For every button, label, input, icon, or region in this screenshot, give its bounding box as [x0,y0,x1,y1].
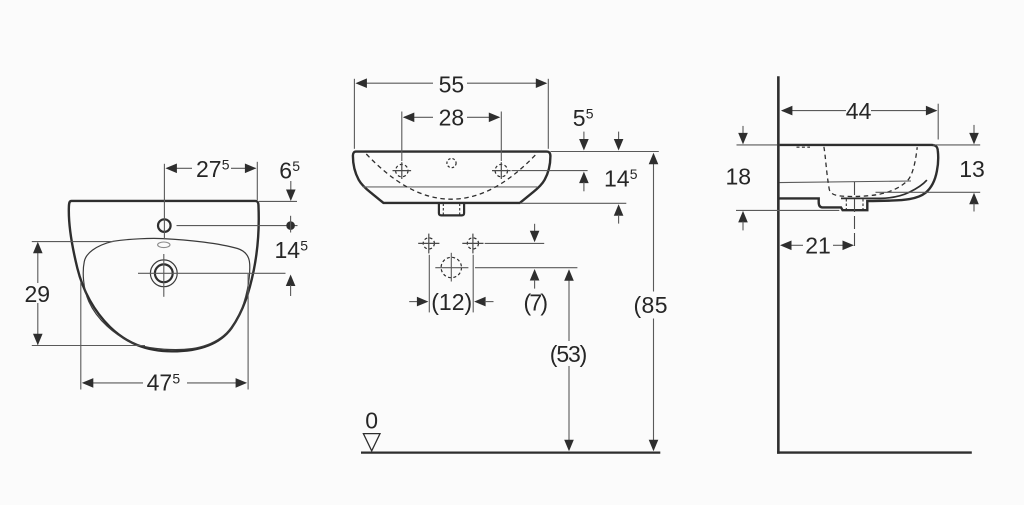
dashed rim near wall [797,146,811,148]
tap hole vertical axis [163,164,165,240]
dimension 27.5 [165,162,257,200]
drain outlet box [439,203,464,216]
svg-text:5: 5 [222,156,230,172]
svg-text:29: 29 [25,281,51,307]
label 14.5 left view [275,237,309,263]
label 47.5 [147,370,181,396]
svg-text:5: 5 [630,166,638,182]
dimension 13 extension line [876,191,981,193]
svg-text:0: 0 [365,408,378,434]
right fastening hole cross on basin [492,162,511,179]
dimension 29 line and arrows [33,242,43,346]
dimension (12) extension lines [428,255,430,313]
dimension 21 line and arrows [780,241,854,251]
dimension 55 line and arrows [355,78,547,88]
ground line [361,451,660,453]
rim thickness line right [841,180,927,198]
svg-text:27: 27 [196,156,222,182]
svg-text:(7): (7) [524,289,549,315]
dimension dot terminator [286,221,295,230]
dimension 13 arrows [969,125,979,212]
dimension 29 extension lines [32,241,113,243]
datum triangle [363,434,380,451]
dimension 14.5 up arrow [286,275,296,297]
bottom edge level line to right [520,202,626,204]
svg-text:(85: (85 [634,292,668,318]
dimension 14.5 arrows middle [614,132,624,224]
basin outer outline [69,201,259,351]
svg-text:5: 5 [300,238,308,254]
basin front inner edge line [363,186,538,188]
svg-text:5: 5 [292,158,300,174]
basin front outline [353,152,551,203]
dimension (85 line and arrows [649,153,659,452]
dimension 47.5 extension lines [80,282,82,390]
drain vertical axis [163,254,165,297]
tap hole horizontal line to dot [177,225,298,227]
wall and floor [777,76,780,454]
label 27.5 [196,156,230,182]
tap hole level line to right [512,170,588,172]
drain horizontal line [138,272,286,274]
hidden drain pipe dashes [845,199,847,210]
hidden bowl dashed arc [366,154,536,199]
left fastening hole cross on basin [393,162,412,179]
dimension 18 arrows [738,126,748,230]
siphon vertical axis [450,253,452,282]
drain outer circle [150,260,177,287]
fixing hole level line to right [485,242,545,244]
svg-text:5: 5 [573,105,586,131]
dimension 6.5 top edge extension [259,200,297,202]
drain center axis [854,182,856,248]
svg-text:(12): (12) [431,289,472,315]
siphon dashed circle [441,257,461,277]
right wall fixing hole cross [462,234,483,254]
left wall fixing hole cross [418,234,439,254]
rear rim edge line [780,181,912,183]
drain outlet hidden lines [442,204,444,215]
svg-text:55: 55 [439,72,465,98]
svg-text:44: 44 [846,98,872,124]
tap hole circle [158,219,171,232]
hidden tap hole dashed circle [447,159,456,168]
dimension 28 line and arrows [403,113,501,123]
lower apron extension line [736,209,839,211]
label 6.5 [279,158,300,184]
svg-text:13: 13 [959,156,985,182]
siphon level line to right [475,267,577,269]
basin side profile [779,145,938,210]
dimension 6.5 down arrow [286,181,296,201]
svg-text:47: 47 [147,370,173,396]
label 14.5 middle [604,166,638,192]
basin inner bowl outline [83,238,250,349]
dimension 44 line and arrows [781,104,938,140]
dimension 47.5 line and arrows [82,378,247,388]
svg-text:28: 28 [439,105,465,131]
svg-text:5: 5 [172,371,180,387]
drain inner circle [155,264,173,282]
svg-text:5: 5 [586,105,594,121]
dimension (53) line and arrows [564,269,574,451]
dimension (12) arrows [409,297,493,307]
dimension (7) arrows [530,224,540,289]
svg-text:(53): (53) [550,341,588,367]
hidden bowl dashed profile [824,147,917,197]
label 5.5 [573,105,594,131]
top edge extension line to right [551,151,659,153]
overflow slot [158,242,170,248]
siphon horizontal axis [435,267,468,269]
dimension 28 extension lines [401,112,403,162]
svg-text:14: 14 [275,237,301,263]
svg-text:14: 14 [604,166,630,192]
dimension 55 extension lines [353,79,355,149]
svg-text:6: 6 [279,158,292,184]
top edge extension lines [737,144,778,146]
svg-text:18: 18 [726,163,752,189]
dimension 5.5 arrows [579,132,589,192]
svg-text:21: 21 [805,233,831,259]
